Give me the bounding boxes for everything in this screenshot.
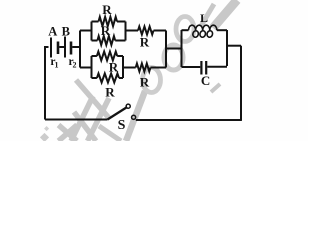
svg-text:R: R bbox=[105, 85, 115, 100]
svg-text:R: R bbox=[140, 74, 150, 89]
svg-text:2: 2 bbox=[73, 61, 77, 70]
svg-text:B: B bbox=[62, 25, 70, 39]
svg-text:R: R bbox=[109, 59, 119, 74]
svg-text:C: C bbox=[201, 73, 210, 88]
svg-text:A: A bbox=[48, 25, 57, 39]
svg-text:1: 1 bbox=[55, 61, 59, 70]
svg-text:R: R bbox=[140, 34, 150, 49]
svg-text:R: R bbox=[101, 23, 111, 38]
svg-text:L: L bbox=[200, 11, 208, 25]
svg-text:R: R bbox=[102, 2, 112, 17]
svg-text:S: S bbox=[118, 118, 126, 133]
